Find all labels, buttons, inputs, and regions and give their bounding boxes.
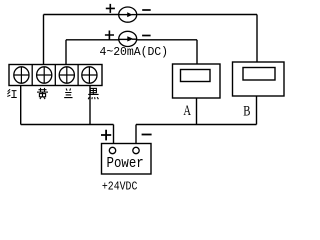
polarity label - (right of current source M1) <box>142 9 151 11</box>
terminal block divider 2-3 <box>54 65 56 86</box>
polarity label + (left of current source M1) <box>106 4 115 13</box>
wire: vertical from terminal 1 (red) down to left bus <box>20 86 22 125</box>
polarity label - (power supply right terminal) <box>142 134 152 136</box>
screw terminal 4 (black) <box>82 67 97 83</box>
wire: vertical drop from top loop into terminal 2 (yellow) <box>43 15 45 68</box>
power supply + terminal circle <box>109 147 115 153</box>
wire: vertical from box B bottom to right bus <box>256 96 258 125</box>
terminal block divider 3-4 <box>77 65 79 86</box>
svg-text:+24VDC: +24VDC <box>102 180 137 194</box>
polarity label + (left of current source M2) <box>105 31 114 40</box>
svg-text:B: B <box>243 103 250 119</box>
screw terminal 2 (yellow) <box>37 67 52 83</box>
terminal block TB1 outline <box>9 65 102 86</box>
instrument box A display window <box>181 70 211 82</box>
polarity label - (right of current source M2) <box>142 35 151 37</box>
wire: vertical from terminal 4 (black) down to left bus <box>89 86 91 125</box>
svg-text:4~20mA(DC): 4~20mA(DC) <box>100 46 169 59</box>
wire: vertical from top loop corner down to box B top <box>256 15 258 63</box>
wire: right bottom bus from power - to box B bottom <box>136 124 257 126</box>
wire: left bottom bus to power + <box>21 124 114 126</box>
label 兰 (blue) <box>64 89 72 98</box>
label 黑 (black) <box>88 88 98 99</box>
instrument box B display window <box>243 68 275 81</box>
wire: drop from right bus into power - terminal <box>135 125 137 144</box>
wire: vertical drop from second loop into terminal 3 (blue) <box>65 40 67 67</box>
power supply PS1 box <box>102 144 152 175</box>
label 黄 (yellow) <box>37 88 48 99</box>
screw terminal 1 (red) <box>14 67 29 83</box>
wire: vertical from box A bottom to right bus <box>196 98 198 125</box>
screw terminal 3 (blue) <box>59 67 74 83</box>
svg-text:Power: Power <box>107 156 144 172</box>
svg-text:A: A <box>183 103 191 119</box>
polarity label + (power supply left terminal) <box>101 130 111 141</box>
current source M2 (second, in series with box A loop) <box>119 31 137 46</box>
wire: vertical from second loop corner down to box A top <box>196 40 198 65</box>
instrument box A outline <box>173 64 221 98</box>
power supply - terminal circle <box>133 147 139 153</box>
label 红 (red) <box>7 89 17 97</box>
wire: second loop horizontal from terminal 3 (blue) to box A corner <box>66 39 197 41</box>
wire: drop from left bus into power + terminal <box>113 125 115 144</box>
current source M1 (top, in series with box B loop) <box>119 7 137 22</box>
instrument box B outline <box>233 62 285 96</box>
wire: top loop horizontal from terminal 2 (yellow) to box B corner <box>44 14 258 16</box>
terminal block divider 1-2 <box>31 65 33 86</box>
